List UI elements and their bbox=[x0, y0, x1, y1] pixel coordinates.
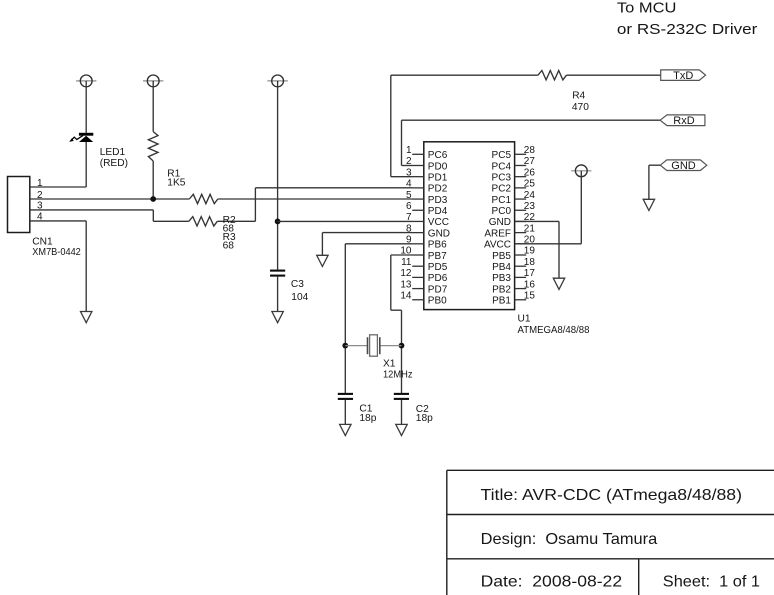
ground (GND flag) bbox=[643, 199, 654, 210]
svg-text:PB4: PB4 bbox=[492, 262, 511, 273]
svg-text:17: 17 bbox=[524, 268, 536, 279]
wire VCC to R1 bbox=[152, 81, 154, 132]
junction node VCC bbox=[275, 219, 281, 225]
svg-text:470: 470 bbox=[572, 102, 589, 113]
svg-text:1: 1 bbox=[37, 178, 43, 189]
wire U1 PB6 to XTAL node A bbox=[345, 244, 412, 393]
svg-text:GND: GND bbox=[489, 217, 511, 228]
svg-text:13: 13 bbox=[400, 279, 412, 290]
svg-text:TxD: TxD bbox=[673, 70, 693, 82]
resistor R4 bbox=[538, 71, 567, 80]
svg-text:12MHz: 12MHz bbox=[383, 370, 413, 381]
svg-text:PB5: PB5 bbox=[492, 251, 511, 262]
ground (U1 pin 22) bbox=[553, 278, 564, 289]
svg-text:PB1: PB1 bbox=[492, 296, 511, 307]
svg-text:5: 5 bbox=[406, 190, 412, 201]
svg-text:X1: X1 bbox=[383, 359, 396, 370]
svg-text:27: 27 bbox=[524, 156, 536, 167]
svg-text:4: 4 bbox=[406, 179, 412, 190]
svg-text:PC2: PC2 bbox=[492, 184, 512, 195]
svg-text:R4: R4 bbox=[572, 90, 585, 101]
flag RxD bbox=[660, 115, 705, 127]
svg-text:PD0: PD0 bbox=[428, 161, 448, 172]
connector CN1 bbox=[8, 177, 30, 233]
wire U1 GND pin 22 to ground bbox=[515, 221, 559, 278]
junction node XTAL2 bbox=[399, 343, 405, 349]
ground (C1) bbox=[340, 424, 351, 435]
power symbol VCC (R1 branch) bbox=[143, 75, 163, 87]
svg-text:18p: 18p bbox=[416, 413, 433, 424]
wire R1 to node D- bbox=[152, 161, 154, 199]
svg-text:8: 8 bbox=[406, 223, 412, 234]
wire VCC node to U1 VCC pin bbox=[278, 220, 413, 222]
svg-text:11: 11 bbox=[401, 257, 412, 268]
wire LED1 cathode to CN1 pin 1 bbox=[30, 142, 86, 187]
svg-text:24: 24 bbox=[524, 190, 536, 201]
svg-text:18: 18 bbox=[524, 257, 536, 268]
wire C3 to ground bbox=[277, 276, 279, 312]
svg-text:7: 7 bbox=[406, 212, 412, 223]
wire U1 PB7 to XTAL node B bbox=[391, 255, 413, 393]
svg-text:PC6: PC6 bbox=[428, 150, 448, 161]
svg-text:PC0: PC0 bbox=[492, 206, 512, 217]
power symbol VCC (AVCC branch) bbox=[571, 165, 591, 177]
svg-text:PC1: PC1 bbox=[492, 195, 512, 206]
LED LED1 bbox=[69, 133, 93, 142]
svg-text:12: 12 bbox=[400, 268, 412, 279]
resistor R3 bbox=[189, 217, 218, 226]
svg-text:To MCU: To MCU bbox=[617, 0, 677, 17]
resistor R1 bbox=[148, 132, 158, 161]
svg-text:14: 14 bbox=[400, 290, 412, 301]
svg-text:VCC: VCC bbox=[428, 217, 449, 228]
capacitor C1 bbox=[338, 393, 353, 395]
svg-text:9: 9 bbox=[406, 235, 412, 246]
svg-text:21: 21 bbox=[524, 223, 536, 234]
wire CN1 pin 4 to ground bbox=[30, 221, 86, 312]
svg-text:PB0: PB0 bbox=[428, 296, 447, 307]
svg-text:CN1: CN1 bbox=[32, 237, 53, 248]
svg-text:PD1: PD1 bbox=[428, 172, 448, 183]
svg-text:U1: U1 bbox=[518, 314, 531, 325]
svg-text:GND: GND bbox=[671, 160, 696, 172]
svg-text:AREF: AREF bbox=[484, 228, 511, 239]
svg-text:23: 23 bbox=[524, 201, 536, 212]
wire R2 to U1 PD3 bbox=[218, 198, 413, 200]
svg-text:Date: 2008-08-22: Date: 2008-08-22 bbox=[481, 573, 623, 590]
wire R3 to U1 PD2 bbox=[217, 188, 412, 222]
svg-text:26: 26 bbox=[524, 167, 536, 178]
wire VCC to LED1 anode bbox=[85, 81, 87, 133]
svg-text:PD6: PD6 bbox=[428, 273, 448, 284]
svg-text:Design: Osamu Tamura: Design: Osamu Tamura bbox=[481, 531, 658, 548]
wire U1 AVCC pin 20 to VCC bbox=[515, 171, 582, 244]
svg-text:LED1: LED1 bbox=[100, 147, 126, 158]
capacitor C3 bbox=[270, 270, 285, 272]
svg-text:or RS-232C Driver: or RS-232C Driver bbox=[617, 21, 758, 38]
svg-text:10: 10 bbox=[400, 246, 412, 257]
svg-text:1K5: 1K5 bbox=[167, 177, 185, 188]
svg-text:XM7B-0442: XM7B-0442 bbox=[32, 247, 81, 258]
flag GND bbox=[660, 160, 707, 172]
wire GND flag to ground bbox=[649, 165, 660, 199]
ground (C3) bbox=[272, 312, 283, 323]
svg-text:20: 20 bbox=[524, 235, 536, 246]
svg-text:1: 1 bbox=[406, 145, 412, 156]
svg-text:Sheet: 1 of 1: Sheet: 1 of 1 bbox=[663, 573, 760, 590]
crystal X1 bbox=[345, 335, 401, 356]
wire C1 to ground bbox=[344, 400, 346, 425]
svg-text:PD3: PD3 bbox=[428, 195, 448, 206]
ground (U1 pin 8) bbox=[317, 255, 328, 266]
svg-text:PD7: PD7 bbox=[428, 284, 448, 295]
svg-text:ATMEGA8/48/88: ATMEGA8/48/88 bbox=[518, 325, 590, 336]
svg-text:28: 28 bbox=[524, 145, 536, 156]
svg-text:2: 2 bbox=[406, 156, 412, 167]
svg-text:C3: C3 bbox=[291, 279, 304, 290]
wire U1 PD0 to RxD flag bbox=[402, 120, 661, 165]
flag TxD bbox=[661, 70, 706, 82]
svg-text:PD4: PD4 bbox=[428, 206, 448, 217]
svg-text:(RED): (RED) bbox=[100, 158, 128, 169]
svg-text:PB7: PB7 bbox=[428, 251, 447, 262]
svg-text:RxD: RxD bbox=[673, 115, 694, 127]
wire U1 GND pin 8 to ground bbox=[322, 233, 412, 256]
svg-text:3: 3 bbox=[406, 167, 412, 178]
svg-text:GND: GND bbox=[428, 228, 450, 239]
junction node R1/pin2 bbox=[150, 196, 156, 202]
wire R4 to TxD flag bbox=[566, 74, 660, 76]
resistor R2 bbox=[189, 194, 218, 203]
svg-text:PC3: PC3 bbox=[492, 172, 512, 183]
ground (C2) bbox=[396, 424, 407, 435]
junction node XTAL1 bbox=[342, 343, 348, 349]
svg-text:15: 15 bbox=[524, 290, 536, 301]
svg-text:19: 19 bbox=[524, 246, 536, 257]
wire U1 PD1 to R4 bbox=[391, 75, 538, 177]
op-amp U1 (IC ATMEGA8/48/88 body and pins) bbox=[400, 142, 535, 310]
wire CN1 pin 3 to R3 bbox=[30, 210, 189, 221]
title block frame bbox=[447, 470, 774, 595]
svg-text:25: 25 bbox=[524, 179, 536, 190]
ground (CN1 pin 4) bbox=[81, 312, 92, 323]
wire C2 to ground bbox=[401, 400, 403, 425]
svg-text:PD5: PD5 bbox=[428, 262, 448, 273]
capacitor C2 bbox=[394, 393, 409, 395]
power symbol VCC (LED branch) bbox=[76, 75, 96, 87]
svg-text:PB2: PB2 bbox=[492, 284, 511, 295]
svg-text:16: 16 bbox=[524, 279, 536, 290]
wire VCC to C3 bbox=[277, 81, 279, 270]
svg-text:18p: 18p bbox=[359, 413, 376, 424]
wire CN1 pin 2 to R2 bbox=[30, 198, 190, 200]
svg-text:PC5: PC5 bbox=[492, 150, 512, 161]
svg-text:AVCC: AVCC bbox=[484, 240, 511, 251]
svg-text:104: 104 bbox=[291, 292, 308, 303]
svg-text:Title: AVR-CDC (ATmega8/48/88): Title: AVR-CDC (ATmega8/48/88) bbox=[481, 487, 743, 504]
svg-text:PC4: PC4 bbox=[492, 161, 512, 172]
power symbol VCC (C3/VCC pin branch) bbox=[267, 75, 287, 87]
svg-text:22: 22 bbox=[524, 212, 536, 223]
svg-text:PB6: PB6 bbox=[428, 240, 447, 251]
svg-text:PB3: PB3 bbox=[492, 273, 511, 284]
svg-text:PD2: PD2 bbox=[428, 184, 448, 195]
svg-text:6: 6 bbox=[406, 201, 412, 212]
svg-text:68: 68 bbox=[223, 241, 235, 252]
